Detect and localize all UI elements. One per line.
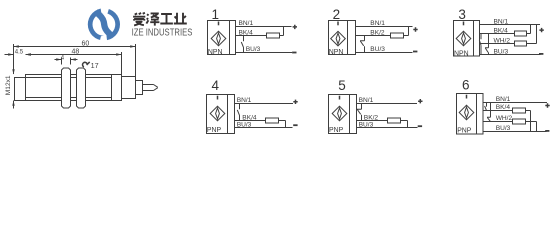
char 爱 (133, 13, 145, 26)
logo blue diagonal band (96, 12, 113, 36)
IZE logo circle (88, 8, 120, 40)
plus terminal (539, 28, 543, 32)
diamond symbol (331, 31, 346, 46)
svg-text:BN/1: BN/1 (237, 97, 252, 104)
NC contact (357, 104, 362, 121)
svg-text:PNP: PNP (329, 127, 344, 134)
plus terminal (293, 100, 297, 104)
wire BN/1 (235, 103, 294, 105)
wire BU/3 (483, 131, 547, 133)
sensor box U3 (454, 21, 480, 57)
plus terminal (545, 103, 549, 107)
svg-text:BU/3: BU/3 (246, 46, 261, 53)
svg-text:2: 2 (333, 7, 341, 22)
wire BU/3 (356, 52, 413, 54)
rear housing (122, 77, 136, 99)
minus terminal (413, 51, 417, 53)
minus terminal (293, 124, 297, 126)
dimension 48 (26, 54, 122, 56)
wire BK/4 with load resistor (236, 27, 284, 36)
sensor box U5 (329, 95, 357, 134)
svg-text:BN/1: BN/1 (239, 20, 254, 27)
logo swirl white (93, 13, 116, 36)
NO contact (485, 103, 487, 111)
wire BU/3 (235, 127, 293, 129)
svg-text:BU/3: BU/3 (370, 46, 385, 53)
plus terminal (293, 25, 297, 29)
wire BK/2 with load resistor (356, 27, 409, 36)
NC contact (487, 103, 491, 122)
NO contact (241, 36, 243, 53)
M12 diameter dimension arrows (12, 69, 14, 106)
wire BN/1 (480, 24, 541, 26)
svg-text:3: 3 (458, 7, 466, 22)
wire BK/4 with load resistor (235, 121, 286, 128)
svg-text:BN/1: BN/1 (496, 96, 511, 103)
sensing mark (218, 22, 220, 26)
svg-text:4.5: 4.5 (15, 50, 24, 56)
cable gland (136, 81, 143, 95)
sensor box U1 (208, 21, 236, 55)
char 业 (174, 13, 187, 24)
wrench symbol 17 (83, 62, 90, 67)
cable (143, 85, 158, 91)
svg-text:BN/1: BN/1 (359, 97, 374, 104)
plus terminal (418, 99, 422, 103)
diamond symbol (459, 105, 474, 120)
hex nut 1 (62, 68, 71, 108)
wire BU/3 (236, 52, 293, 54)
wire BU/3 (480, 54, 541, 56)
svg-text:BK/4: BK/4 (242, 114, 257, 121)
wire BN/1 (236, 26, 292, 28)
svg-text:IZE INDUSTRIES: IZE INDUSTRIES (132, 27, 193, 38)
diamond symbol (211, 31, 226, 46)
svg-text:PNP: PNP (457, 127, 472, 134)
wire BK/2 with load resistor (357, 121, 408, 128)
svg-text:WH/2: WH/2 (494, 37, 511, 44)
svg-text:5: 5 (338, 78, 346, 93)
svg-text:60: 60 (82, 40, 90, 47)
wire WH/2 with load resistor (480, 25, 537, 44)
svg-text:BK/2: BK/2 (370, 29, 385, 36)
wire BK/4 with load resistor (483, 111, 531, 132)
svg-text:WH/2: WH/2 (496, 115, 513, 122)
dimension 60 (14, 46, 136, 48)
svg-text:4: 4 (61, 56, 65, 62)
svg-text:BK/4: BK/4 (239, 29, 254, 36)
diamond symbol (456, 31, 471, 46)
wire WH/2 with load resistor (483, 122, 537, 132)
NO contact (479, 34, 481, 55)
wire BK/4 with load resistor (480, 25, 531, 34)
minus terminal (418, 125, 422, 127)
wire BN/1 (357, 103, 418, 105)
sensor box U4 (207, 95, 235, 134)
thread root lines (26, 75, 112, 101)
sensing mark (466, 95, 468, 99)
svg-text:6: 6 (462, 78, 470, 93)
dimension 4.5 (5, 54, 32, 56)
svg-text:BK/4: BK/4 (496, 104, 511, 111)
diamond symbol (210, 106, 225, 121)
logo chinese text 爱泽工业 (133, 13, 187, 26)
svg-text:NPN: NPN (208, 49, 223, 56)
svg-text:BU/3: BU/3 (494, 49, 509, 56)
char 泽 (146, 13, 159, 25)
NO contact (237, 104, 239, 121)
threaded barrel (26, 75, 122, 101)
svg-text:NPN: NPN (454, 50, 469, 57)
sensing mark (217, 96, 219, 100)
svg-text:BN/1: BN/1 (494, 18, 509, 25)
svg-text:NPN: NPN (329, 49, 344, 56)
svg-text:BU/3: BU/3 (237, 122, 252, 129)
sensing mark (463, 22, 465, 26)
plus terminal (413, 27, 417, 31)
svg-text:BK/2: BK/2 (364, 114, 379, 121)
svg-text:48: 48 (72, 48, 80, 55)
sensor box U2 (329, 21, 356, 55)
sensing mark (337, 22, 339, 26)
wire BN/1 (356, 26, 413, 28)
minus terminal (292, 52, 296, 54)
hex nut 2 (77, 68, 86, 108)
NC contact (360, 36, 365, 53)
char 工 (160, 14, 173, 24)
sensing mark (339, 96, 341, 100)
NC contact (485, 34, 489, 55)
minus terminal (539, 53, 543, 55)
svg-text:BU/3: BU/3 (496, 125, 511, 132)
svg-text:BK/4: BK/4 (494, 28, 509, 35)
svg-text:PNP: PNP (207, 127, 222, 134)
svg-text:BU/3: BU/3 (359, 122, 374, 129)
svg-text:1: 1 (212, 7, 220, 22)
dimension 4 (nut width) (55, 58, 78, 65)
minus terminal (545, 130, 549, 132)
wire BN/1 (483, 102, 547, 104)
svg-text:BN/1: BN/1 (370, 20, 385, 27)
svg-text:17: 17 (91, 61, 99, 70)
wire BU/3 (357, 127, 418, 129)
svg-text:M12x1: M12x1 (5, 75, 12, 95)
svg-text:4: 4 (212, 78, 220, 93)
sensor box U6 (457, 94, 484, 135)
diamond symbol (332, 106, 347, 121)
sensing face cap (15, 78, 26, 101)
